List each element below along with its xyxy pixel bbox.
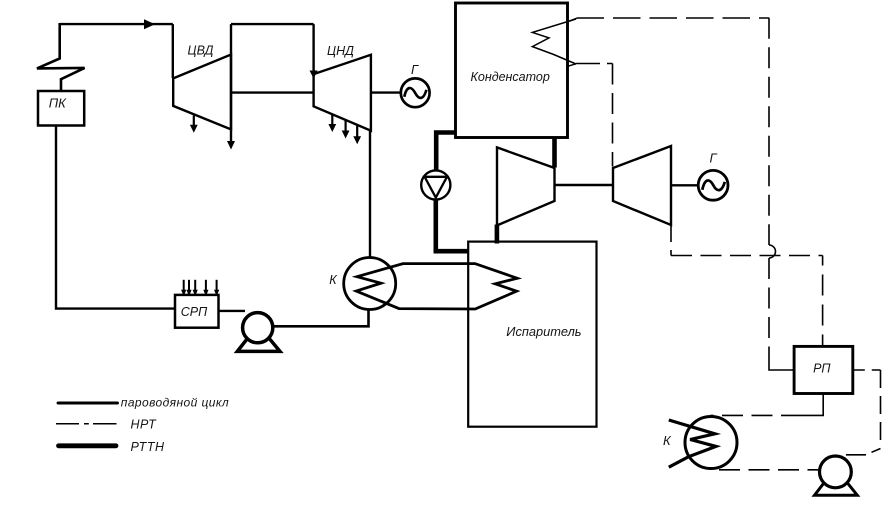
arrow steam flow right — [144, 19, 155, 29]
binary turbine T2 — [613, 146, 671, 225]
wire crossover down to LP inlet — [312, 24, 314, 71]
wire feed pump to K heat exchanger — [273, 311, 369, 327]
thick pipe pump to evaporator — [436, 200, 469, 251]
wire boiler outlet down and right to СРП — [56, 126, 175, 309]
svg-text:РП: РП — [813, 361, 831, 375]
thick pipe condenser to binary turbine T1 — [552, 138, 557, 168]
thick pipe condenser to circulation pump (РТТН) — [436, 133, 456, 171]
legend thick line РТТН — [59, 443, 117, 448]
svg-text:РТТН: РТТН — [131, 440, 166, 454]
svg-text:Испаритель: Испаритель — [506, 324, 581, 339]
wire РП bottom outlet — [802, 394, 823, 416]
svg-text:СРП: СРП — [181, 305, 208, 319]
wire shaft between turbines — [231, 91, 314, 93]
dashed pipe РП to K2 heat exchanger — [711, 414, 803, 416]
СРП box — [175, 295, 219, 328]
dashed pipe K2 to pump P3 — [719, 469, 818, 471]
svg-text:Г: Г — [411, 62, 419, 77]
svg-text:ПК: ПК — [49, 96, 67, 111]
arrow LP bleed 1 — [331, 114, 333, 124]
arrow HP bleed down — [193, 116, 195, 126]
dashed pipe НРТ condenser right to binary turbine T2 inlet — [568, 64, 577, 67]
arrow LP bleed 2 — [345, 120, 347, 131]
heat exchanger K (middle) circle — [344, 258, 396, 310]
wire main steam line from boiler to HP turbine — [60, 24, 173, 78]
svg-text:К: К — [329, 273, 337, 287]
condenser heating coil — [532, 19, 576, 64]
pump P2 circle with triangle (hot water pump) — [421, 170, 450, 199]
turbine ЦВД — [173, 55, 231, 130]
svg-text:Конденсатор: Конденсатор — [471, 70, 550, 84]
svg-text:К: К — [663, 433, 672, 448]
wire crossover pipe top — [231, 23, 314, 25]
dashed pipe НРТ condenser top to РП (right vertical) — [568, 18, 577, 22]
arrow LP bleed 3 — [356, 125, 358, 137]
dashed pipe T2 exhaust to РП — [670, 226, 672, 256]
wire LP exhaust down to K heat exchanger — [369, 131, 371, 258]
generator G1 circle — [401, 78, 430, 107]
binary turbine T1 — [497, 147, 555, 225]
hop where vertical crosses dashed horizontal — [769, 245, 776, 258]
arrow LP inlet down — [310, 71, 318, 79]
feed pump P1 (circle on triangle base) — [237, 325, 280, 351]
evaporator Испаритель box — [468, 242, 596, 427]
legend solid line пароводяной цикл — [58, 402, 118, 405]
wire LP shaft to generator — [371, 91, 400, 93]
dashed pipe РП right to pump P3 — [853, 369, 881, 371]
wire binary shaft — [555, 184, 614, 186]
svg-text:НРТ: НРТ — [131, 417, 158, 431]
pump P3 (circle on triangle base) — [815, 468, 858, 495]
break symbol (line break zigzag) above boiler — [37, 23, 85, 91]
heat exchanger K2 (bottom right) circle — [685, 417, 737, 469]
arrows into СРП top — [184, 280, 217, 291]
heat transfer lens with coil between K and evaporator — [356, 264, 517, 309]
svg-text:пароводяной цикл: пароводяной цикл — [121, 395, 229, 409]
wire shaft to generator G2 — [671, 184, 697, 186]
K2 coil zigzag — [669, 420, 716, 467]
generator G2 circle — [698, 170, 728, 200]
thick pipe binary turbine T1 to evaporator — [495, 225, 500, 244]
boiler ПК — [38, 91, 84, 126]
РП box — [794, 346, 853, 393]
wire crossover riser and HP exhaust — [230, 24, 232, 141]
wire СРП to feed pump — [219, 310, 246, 312]
turbine ЦНД — [314, 55, 371, 131]
condenser Конденсатор box — [456, 3, 568, 138]
generator G2 sine — [702, 180, 725, 190]
generator G1 sine — [404, 88, 426, 98]
svg-text:ЦНД: ЦНД — [327, 44, 354, 58]
arrow HP exhaust down — [227, 141, 235, 150]
legend dashed line НРТ — [56, 423, 117, 425]
svg-text:ЦВД: ЦВД — [188, 43, 214, 57]
svg-text:Г: Г — [710, 151, 718, 166]
